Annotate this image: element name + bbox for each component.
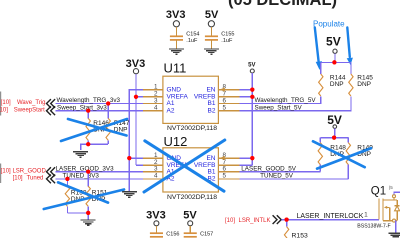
wire Sweep_Start_5V: [240, 96, 351, 110]
svg-text:B2: B2: [208, 107, 216, 114]
svg-text:EN: EN: [206, 155, 215, 162]
power 3V3 bottom: [146, 210, 166, 234]
svg-text:5: 5: [223, 105, 227, 112]
wire Q1 drain up: [394, 192, 400, 195]
svg-text:LASER_GOOD_5V: LASER_GOOD_5V: [241, 165, 296, 172]
DNP cross over U12: [144, 140, 225, 192]
wire U11 pin7 link: [240, 96, 253, 98]
svg-text:.1uF: .1uF: [221, 38, 233, 44]
svg-text:EN: EN: [206, 86, 215, 93]
U11 EN input arrow: [220, 87, 225, 91]
transistor Q1: [357, 185, 399, 229]
resistor R151: [86, 170, 108, 213]
ground under C154: [169, 49, 184, 54]
off-page connector LSR_GOOD: [47, 167, 56, 176]
gate bar: [378, 199, 380, 220]
svg-text:3V3: 3V3: [146, 210, 166, 222]
wire U11 pin8 link: [240, 89, 253, 91]
ground under R146/R147: [73, 152, 88, 157]
wire U12 pin7 link: [240, 164, 253, 166]
svg-text:C157: C157: [200, 231, 213, 237]
junction R151 bottom: [86, 211, 90, 215]
off-page connector SweepStart: [47, 106, 56, 115]
svg-text:[10]: [10]: [225, 218, 235, 224]
svg-text:1: 1: [364, 212, 368, 219]
svg-text:B1: B1: [208, 100, 216, 107]
power 5V bottom: [183, 210, 197, 234]
svg-text:(5: (5: [389, 185, 393, 190]
wire 5V EN vertical: [251, 73, 253, 165]
wire R150/R151 bottom rail: [67, 213, 88, 220]
wire U12 pin1 link: [129, 157, 143, 159]
svg-text:(05 DECIMAL): (05 DECIMAL): [228, 0, 337, 9]
svg-text:A2: A2: [167, 107, 175, 114]
ground under C155: [204, 49, 219, 54]
junction 5V rail: [332, 60, 336, 64]
sheet edge bar bottom: [0, 164, 1, 184]
wire U12 pin8 link: [240, 157, 253, 159]
U11 pin stubs left: [143, 90, 163, 111]
capacitor C157: [184, 231, 214, 240]
wire R148/R149 top rail: [320, 137, 348, 139]
svg-text:B1: B1: [208, 169, 216, 176]
U12 pin stubs left: [143, 158, 163, 179]
svg-text:5V: 5V: [248, 62, 255, 68]
svg-text:[10]: [10]: [0, 108, 8, 114]
off-page connector LSR_INTLK: [273, 215, 282, 224]
Populate arrow right: [347, 28, 353, 66]
svg-text:5: 5: [223, 173, 227, 180]
U12 pin numbers: [154, 152, 227, 180]
svg-text:6: 6: [223, 97, 227, 104]
svg-text:5V: 5V: [205, 9, 219, 21]
wire TUNED_3V3: [55, 178, 143, 180]
resistor R147: [106, 101, 130, 144]
op-amp U11 (level translator): [163, 60, 219, 132]
DNP cross over R146/R147: [61, 119, 127, 141]
wire Wavelength_TRG_5V: [240, 96, 321, 103]
svg-text:4: 4: [154, 173, 158, 180]
svg-text:A1: A1: [167, 100, 175, 107]
DNP cross over R148/R149: [313, 141, 371, 168]
svg-text:5V: 5V: [183, 210, 197, 222]
svg-text:LSR_GOOD: LSR_GOOD: [12, 168, 46, 174]
wire Wavelength_TRG_3v3: [55, 103, 143, 105]
wire LASER_GOOD_5V: [240, 171, 321, 173]
body line and arrow: [389, 207, 391, 220]
svg-text:Sweep_Start_5V: Sweep_Start_5V: [255, 105, 303, 112]
wire TUNED_5V: [240, 178, 349, 180]
wire Q1 source down: [395, 221, 397, 233]
resistor R149: [346, 138, 373, 179]
U11 pin stubs right: [218, 90, 239, 111]
off-page connector Tuned: [47, 175, 56, 184]
capacitor C154: [170, 31, 200, 48]
op-amp U12 (level translator, not fitted): [163, 134, 219, 201]
U11 pin names: [167, 86, 216, 114]
svg-text:U11: U11: [164, 60, 187, 75]
U11 pin numbers: [154, 83, 227, 111]
svg-text:NVT2002DP,118: NVT2002DP,118: [167, 125, 217, 132]
svg-text:Populate: Populate: [313, 19, 345, 28]
svg-text:SweepStart: SweepStart: [14, 108, 45, 114]
svg-text:LASER_INTERLOCK: LASER_INTERLOCK: [297, 213, 364, 220]
svg-text:Q1: Q1: [371, 185, 386, 197]
svg-text:R153: R153: [292, 232, 308, 238]
svg-text:U12: U12: [164, 134, 188, 149]
junction R146 bottom: [86, 142, 90, 146]
svg-text:3V3: 3V3: [166, 9, 186, 21]
power 5V (R148/R149 rail): [327, 113, 342, 137]
junction U11 pin2 / 3V3: [134, 95, 138, 99]
svg-text:C155: C155: [221, 31, 234, 37]
svg-text:DNP: DNP: [357, 81, 371, 88]
svg-text:NVT2002DP,118: NVT2002DP,118: [167, 194, 217, 201]
Populate arrow left: [315, 28, 322, 71]
svg-text:LSR_INTLK: LSR_INTLK: [238, 218, 270, 224]
U12 pin stubs right: [218, 158, 239, 179]
svg-text:BSS138W-7-F: BSS138W-7-F: [357, 224, 390, 230]
wire 3V3 vertical to U11 pin2 and U12 pin2: [135, 74, 137, 165]
power 5V top: [205, 9, 219, 36]
wire U12 pin2 stub link: [136, 164, 143, 166]
svg-text:[10]: [10]: [13, 176, 23, 182]
U12 EN input arrow: [220, 156, 225, 160]
power 5V (R144/R145 rail): [326, 35, 341, 63]
resistor R146: [86, 109, 109, 145]
ground under Q1 source: [388, 233, 400, 238]
capacitor C155: [205, 31, 235, 48]
svg-text:.1uF: .1uF: [186, 38, 198, 44]
junction R153 top: [285, 218, 289, 222]
wire U11 pin1 GND down to ground / U12 pin1: [129, 90, 143, 192]
svg-text:3: 3: [154, 166, 158, 173]
svg-text:1: 1: [154, 152, 158, 159]
power 3V3 mid (VREFA rail): [126, 58, 146, 74]
svg-text:4: 4: [154, 105, 158, 112]
svg-text:C156: C156: [166, 231, 179, 237]
junction U11 pin7: [250, 95, 254, 99]
wire LASER_GOOD_3V3: [55, 171, 143, 173]
ground under R150/R151: [81, 220, 96, 225]
wire U11 pin2 stub link: [136, 96, 143, 98]
resistor R144: [319, 62, 346, 96]
svg-text:Sweep_Start_3v3: Sweep_Start_3v3: [57, 105, 107, 112]
junction U11 pin8: [250, 88, 254, 92]
svg-text:TUNED_5V: TUNED_5V: [260, 173, 294, 180]
power 3V3 top: [166, 9, 186, 36]
wire LASER_INTERLOCK: [282, 219, 379, 221]
svg-text:1: 1: [154, 83, 158, 90]
svg-text:3: 3: [154, 97, 158, 104]
svg-text:6: 6: [223, 166, 227, 173]
resistor R145: [349, 62, 374, 96]
junction dots overlay: [65, 60, 336, 221]
junction U12 pin1 GND: [127, 156, 131, 160]
DNP cross over R150/R151: [44, 182, 124, 209]
svg-text:GND: GND: [167, 86, 182, 93]
junction 5V rail 2: [332, 136, 336, 140]
junction U12 pin8: [250, 156, 254, 160]
body diode (zener): [396, 200, 398, 206]
U12 pin names: [167, 155, 216, 183]
wire R144/R145 top rail: [321, 61, 351, 63]
wire R146/R147 bottom rail to ground: [81, 144, 109, 150]
svg-text:DNP: DNP: [330, 81, 344, 88]
svg-text:Wavelength_TRG_5V: Wavelength_TRG_5V: [255, 97, 317, 104]
source lead: [383, 220, 397, 222]
svg-text:C154: C154: [186, 31, 199, 37]
ground under U11/U12 GND: [122, 192, 137, 197]
svg-text:5V: 5V: [326, 35, 341, 49]
drain lead: [383, 199, 397, 201]
svg-text:Wavelength_TRG_3v3: Wavelength_TRG_3v3: [57, 97, 121, 104]
resistor R150: [65, 177, 87, 213]
svg-text:LASER_GOOD_3V3: LASER_GOOD_3V3: [56, 165, 115, 172]
sheet edge bar top: [0, 92, 1, 116]
svg-text:[10]: [10]: [1, 100, 11, 106]
resistor R153: [284, 220, 308, 240]
resistor R148: [318, 138, 346, 172]
svg-text:[10]: [10]: [1, 168, 11, 174]
svg-text:Tuned: Tuned: [27, 176, 44, 182]
capacitor C156: [150, 231, 180, 240]
power 5V small (EN rail): [248, 62, 255, 73]
svg-text:Wave_Trig: Wave_Trig: [17, 100, 46, 106]
channel bar: [382, 199, 384, 221]
wire Sweep_Start_3v3: [55, 110, 143, 112]
off-page connector Wave_Trig: [47, 99, 56, 108]
